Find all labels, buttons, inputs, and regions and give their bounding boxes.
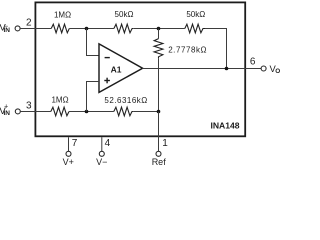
resistor 50k (first)	[114, 24, 133, 33]
svg-text:50kΩ: 50kΩ	[186, 10, 205, 19]
node V- terminal (pin 4 circle)	[99, 151, 104, 156]
node Ref junction dot	[157, 110, 161, 114]
IC outline box INA148	[35, 2, 245, 136]
label VIN-	[0, 22, 10, 34]
node V+ terminal (pin 7 circle)	[66, 151, 71, 156]
svg-text:IN: IN	[4, 110, 11, 117]
resistor 1M-ohm (top)	[51, 24, 69, 33]
node Ref terminal (pin 1 circle)	[156, 151, 161, 156]
svg-text:4: 4	[105, 138, 111, 149]
wire pin 7 V+	[68, 137, 70, 151]
svg-text:O: O	[275, 68, 280, 75]
svg-text:−: −	[4, 22, 8, 31]
svg-text:INA148: INA148	[210, 121, 239, 131]
svg-text:2: 2	[26, 17, 32, 28]
node VIN- input terminal (pin 2 circle)	[15, 26, 20, 31]
op-amp minus sign	[105, 57, 110, 58]
node B junction dot (feedback tap)	[157, 27, 161, 31]
svg-text:+: +	[4, 103, 8, 110]
node C junction dot (noninverting input node)	[85, 110, 89, 114]
wire op-amp output to pin 6	[142, 68, 261, 70]
svg-text:50kΩ: 50kΩ	[115, 10, 134, 19]
svg-text:3: 3	[26, 101, 32, 112]
wire node C up to op-amp plus input	[87, 82, 100, 112]
wire Ref node down to pin 1	[158, 112, 160, 152]
wire 50k to node B	[133, 28, 185, 30]
resistor 1M-ohm (bottom)	[51, 107, 69, 116]
svg-text:1MΩ: 1MΩ	[51, 96, 68, 105]
wire 52.6316k to Ref node	[133, 111, 158, 113]
svg-text:A1: A1	[111, 64, 122, 74]
resistor 52.6316k	[114, 107, 133, 116]
wire 50k second to top-right corner down to output node	[205, 29, 227, 69]
label VO	[270, 63, 281, 75]
wire 2.7778k bottom down to Ref node (crosses output wire)	[158, 58, 160, 111]
svg-text:52.6316kΩ: 52.6316kΩ	[104, 96, 147, 105]
svg-text:Ref: Ref	[152, 157, 167, 166]
svg-text:V−: V−	[96, 157, 107, 166]
wire R1M to node A	[69, 28, 114, 30]
svg-text:7: 7	[72, 138, 78, 149]
svg-text:1: 1	[162, 138, 168, 149]
node A junction dot (inverting input node)	[85, 27, 89, 31]
node output junction dot	[225, 67, 229, 71]
wire R1M bottom to node C	[69, 111, 114, 113]
op-amp plus sign	[104, 78, 110, 84]
resistor 2.7778k vertical	[154, 29, 163, 59]
svg-text:2.7778kΩ: 2.7778kΩ	[168, 45, 207, 54]
wire pin3 to R 1M bottom	[20, 111, 51, 113]
label VIN+	[0, 103, 10, 117]
svg-text:1MΩ: 1MΩ	[54, 11, 71, 20]
op-amp A1 triangle	[99, 44, 143, 93]
node VIN+ input terminal (pin 3 circle)	[15, 109, 20, 114]
wire node A down to op-amp minus input	[87, 29, 100, 56]
wire pin2 to R 1M	[20, 28, 51, 30]
wire pin 4 V-	[101, 137, 103, 151]
svg-text:V+: V+	[63, 157, 74, 166]
svg-text:6: 6	[250, 57, 256, 68]
resistor 50k (second)	[185, 24, 205, 33]
node VO output terminal (pin 6 circle)	[261, 66, 266, 71]
